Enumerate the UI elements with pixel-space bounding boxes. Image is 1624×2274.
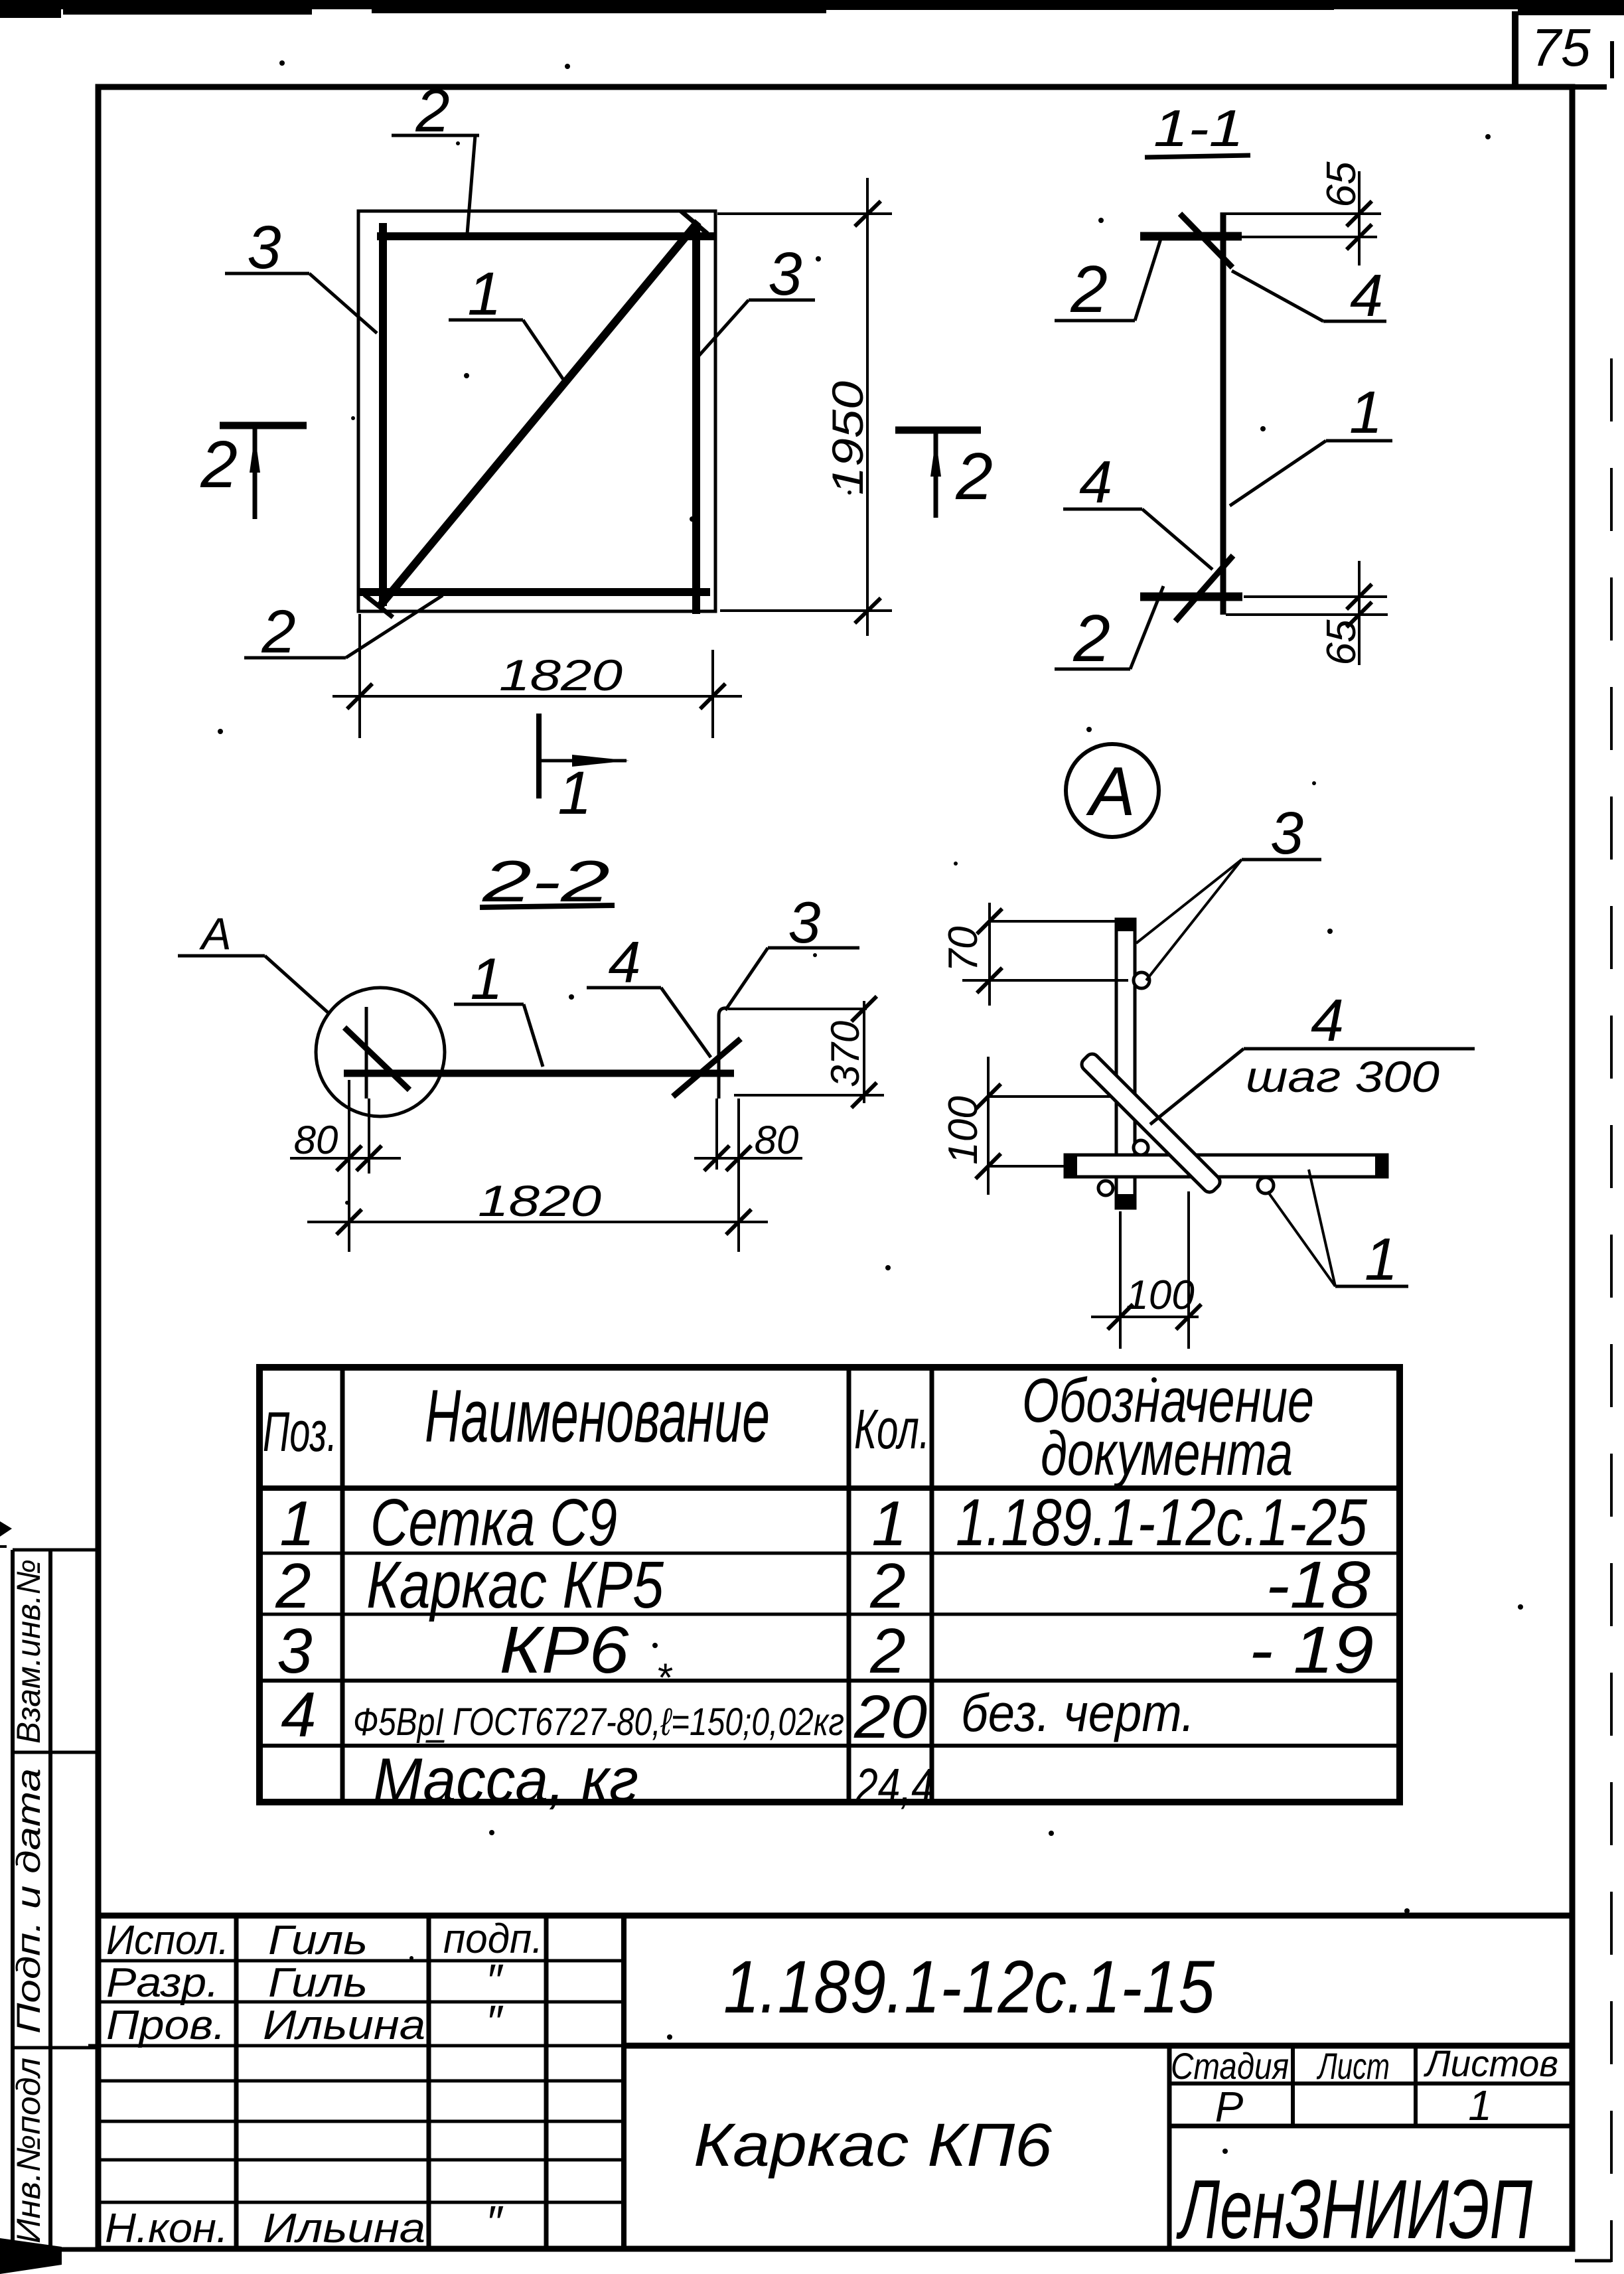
scan noise: top black band [0,0,1624,18]
svg-text:1: 1 [279,1488,315,1559]
svg-text:1: 1 [1349,380,1382,446]
dimension 80 left (section 2-2) [290,1080,401,1252]
svg-text:3: 3 [1270,800,1303,867]
svg-text:″: ″ [486,2196,504,2248]
svg-text:А: А [198,909,231,959]
svg-text:Кол.: Кол. [854,1398,930,1460]
detail A title circle [1066,744,1159,837]
svg-text:документа: документа [1041,1418,1293,1488]
svg-text:3: 3 [788,889,821,955]
dimension 100 left (detail A) [940,1057,1110,1195]
row 4: Ф5ВрI ГОСТ6727-80 [281,1655,1195,1751]
section cut marker 2 (left) [200,425,307,519]
svg-text:80: 80 [294,1118,338,1162]
carcass bar bottom (section 1-1) [1140,593,1242,601]
dimension 1950 (right of plan) [717,178,892,636]
dimension 100 bottom (detail A) [1091,1191,1201,1349]
svg-text:4: 4 [1079,449,1112,516]
svg-text:шаг 300: шаг 300 [1246,1052,1439,1101]
svg-text:*: * [656,1655,672,1700]
dimension 70 (detail A) [940,903,1128,1006]
label 2 (bottom left lower, section 1-1) [1055,586,1163,676]
svg-text:КР6: КР6 [500,1613,629,1687]
svg-text:Разр.: Разр. [106,1960,219,2006]
section 2-2 title [480,848,615,914]
svg-text:100: 100 [1126,1272,1194,1318]
svg-text:Каркас КР5: Каркас КР5 [366,1548,664,1622]
left frame tick at title row [88,2044,101,2048]
stage table headers [1171,2042,1558,2087]
svg-text:Инв.№подл: Инв.№подл [10,2058,47,2243]
label 2 (top) [392,77,479,234]
dimension 65 (top) [1224,161,1381,265]
title block row Испол [106,1916,543,1963]
carcass top bar KP5 (plan) [377,232,715,240]
title block row Пров [106,1996,504,2048]
svg-text:ЛенЗНИИЭП: ЛенЗНИИЭП [1176,2162,1532,2256]
svg-text:Поз.: Поз. [263,1401,337,1463]
svg-text:1820: 1820 [499,650,623,700]
label 3 (section 2-2) [725,889,859,1010]
svg-text:Пров.: Пров. [106,2003,226,2048]
weld slash bottom (section 1-1) [1175,556,1233,621]
corner tick top-right [681,211,707,234]
svg-text:Ильина: Ильина [263,2206,425,2251]
page right edge dashed mark [1575,41,1612,2262]
svg-text:Р: Р [1215,2083,1244,2131]
svg-text:75: 75 [1532,18,1591,77]
svg-text:Н.кон.: Н.кон. [105,2206,228,2251]
svg-text:1: 1 [557,759,591,827]
svg-text:370: 370 [823,1021,867,1087]
sheet number box "75" [1515,11,1607,88]
label 4 (top right, section 1-1) [1232,263,1386,329]
title block grid [100,1916,1572,2249]
svg-text:80: 80 [755,1118,799,1162]
dimension 80 right (section 2-2) [694,1099,802,1252]
label 3 (detail A) [1136,800,1321,980]
detail callout circle A leader [178,909,330,1014]
wire end (inside circle) [365,1007,368,1099]
label 3 (right) [699,240,815,356]
svg-text:1: 1 [1365,1227,1398,1293]
label 2 (bottom) [244,595,443,666]
carcass left bar KP6 (plan) [379,223,387,606]
mesh bar (section 2-2, horizontal) [344,1070,734,1077]
svg-text:3: 3 [247,214,281,281]
svg-text:1950: 1950 [823,381,872,495]
svg-text:2: 2 [869,1551,905,1622]
svg-text:3: 3 [768,240,802,308]
label 1 (section 2-2) [454,946,543,1067]
parts table grid [259,1367,1400,1802]
mesh bar (section 1-1, vertical) [1220,212,1226,615]
carcass bottom bar KP5 (plan) [358,588,710,596]
svg-text:4: 4 [609,929,641,995]
svg-text:Гиль: Гиль [268,1960,368,2006]
mesh rod (horizontal, detail A) [1065,1155,1387,1177]
label 1 (detail A) [1268,1170,1408,1293]
wire circle (below mesh rod right) [1258,1177,1274,1193]
detail circle A (on section 2-2) [316,988,445,1116]
left margin column boxes [13,1550,98,2249]
svg-text:″: ″ [486,1996,504,2048]
section cut marker 1 (below plan) [539,714,629,827]
svg-text:4: 4 [1350,263,1383,329]
carcass wire right (section 2-2) [719,1008,728,1099]
svg-text:Масса, кг: Масса, кг [373,1745,638,1815]
section cut marker 2 (right) [895,430,993,518]
svg-text:3: 3 [277,1616,312,1687]
svg-text:Наименование: Наименование [425,1375,770,1458]
diagonal wire rod (detail A) [1079,1051,1222,1195]
label 4 шаг 300 (detail A) [1150,988,1475,1124]
left page edge small dash [0,1545,7,1548]
svg-text:1: 1 [871,1488,907,1559]
svg-text:70: 70 [940,927,986,972]
row 3: КР6 [277,1613,1374,1687]
weld slash top (section 1-1) [1180,214,1232,267]
svg-text:- 19: - 19 [1249,1613,1374,1687]
svg-text:-18: -18 [1266,1548,1370,1622]
svg-text:Ф5Вр̲I ГОСТ6727-80,ℓ=150;0,02к: Ф5Вр̲I ГОСТ6727-80,ℓ=150;0,02кг [353,1701,844,1744]
svg-text:Ильина: Ильина [263,2003,425,2048]
mesh C9 outline (plan) [358,211,715,611]
title block row Н.кон [105,2196,504,2251]
svg-text:1: 1 [471,946,503,1012]
svg-text:Испол.: Испол. [106,1918,229,1963]
svg-text:1: 1 [1468,2082,1492,2129]
svg-text:100: 100 [940,1096,986,1164]
svg-text:Гиль: Гиль [268,1918,368,1963]
title block row Разр [106,1955,504,2007]
svg-text:1-1: 1-1 [1153,99,1244,157]
svg-text:24,4: 24,4 [855,1758,934,1813]
svg-text:65: 65 [1319,161,1365,207]
wire cross-section circle (detail A top) [1134,972,1149,988]
svg-text:1: 1 [467,260,501,328]
svg-text:А: А [1085,753,1135,830]
carcass rod (vertical, detail A) [1116,919,1135,1208]
wire circle (below mesh rod left) [1098,1181,1113,1195]
left page edge arrow mark [0,1521,12,1537]
dimension 1820 (below plan) [332,614,742,738]
row 2: Каркас КР5 [275,1548,1370,1622]
carcass bar top (section 1-1) [1140,232,1242,241]
dimension 65 (bottom) [1226,561,1388,665]
svg-text:1.189.1-12с.1-15: 1.189.1-12с.1-15 [723,1945,1215,2028]
label 3 (left) [225,214,377,333]
svg-text:2: 2 [1070,252,1108,327]
dimension 370 (section 2-2) [728,996,884,1108]
svg-text:20: 20 [853,1683,927,1751]
svg-text:2: 2 [1072,601,1110,676]
svg-text:2: 2 [261,598,295,666]
svg-text:2: 2 [955,439,993,514]
svg-text:1820: 1820 [478,1176,601,1225]
svg-text:Подп. и дата: Подп. и дата [10,1768,47,2034]
label 2 (top left, section 1-1) [1055,239,1161,327]
svg-text:2: 2 [200,427,238,502]
diagonal bar (plan) [378,222,698,608]
svg-text:2: 2 [869,1616,905,1687]
svg-text:4: 4 [281,1679,316,1750]
corner tick bottom-left [364,595,393,617]
svg-text:без. черт.: без. черт. [961,1683,1195,1742]
section 1-1 title [1145,99,1250,157]
label 1 (diagonal) [449,260,565,382]
scan noise: bottom-left black wedge [0,2238,62,2274]
wire circle (above mesh rod) [1134,1140,1148,1155]
label 4 (section 2-2) [587,929,711,1057]
svg-text:65: 65 [1319,619,1365,665]
svg-text:Лист: Лист [1317,2045,1390,2087]
label 1 (section 1-1) [1230,380,1392,506]
weld slash right (section 2-2) [673,1039,741,1097]
row 1: Сетка С9 [279,1485,1367,1560]
scan speckles [218,60,1523,2154]
dimension 1820 (section 2-2) [307,1176,768,1235]
svg-text:2: 2 [415,77,449,145]
svg-text:Стадия: Стадия [1171,2045,1289,2087]
svg-text:Листов: Листов [1424,2042,1558,2084]
svg-text:2: 2 [275,1551,311,1622]
svg-text:Взам.инв.№: Взам.инв.№ [10,1559,47,1744]
svg-text:4: 4 [1311,988,1344,1054]
row 5: Масса кг [373,1745,934,1815]
svg-text:Каркас КП6: Каркас КП6 [694,2111,1053,2179]
carcass right bar KP6 (plan) [692,226,700,614]
weld slash (inside circle) [344,1027,409,1090]
label 4 (bottom left, section 1-1) [1063,449,1213,569]
